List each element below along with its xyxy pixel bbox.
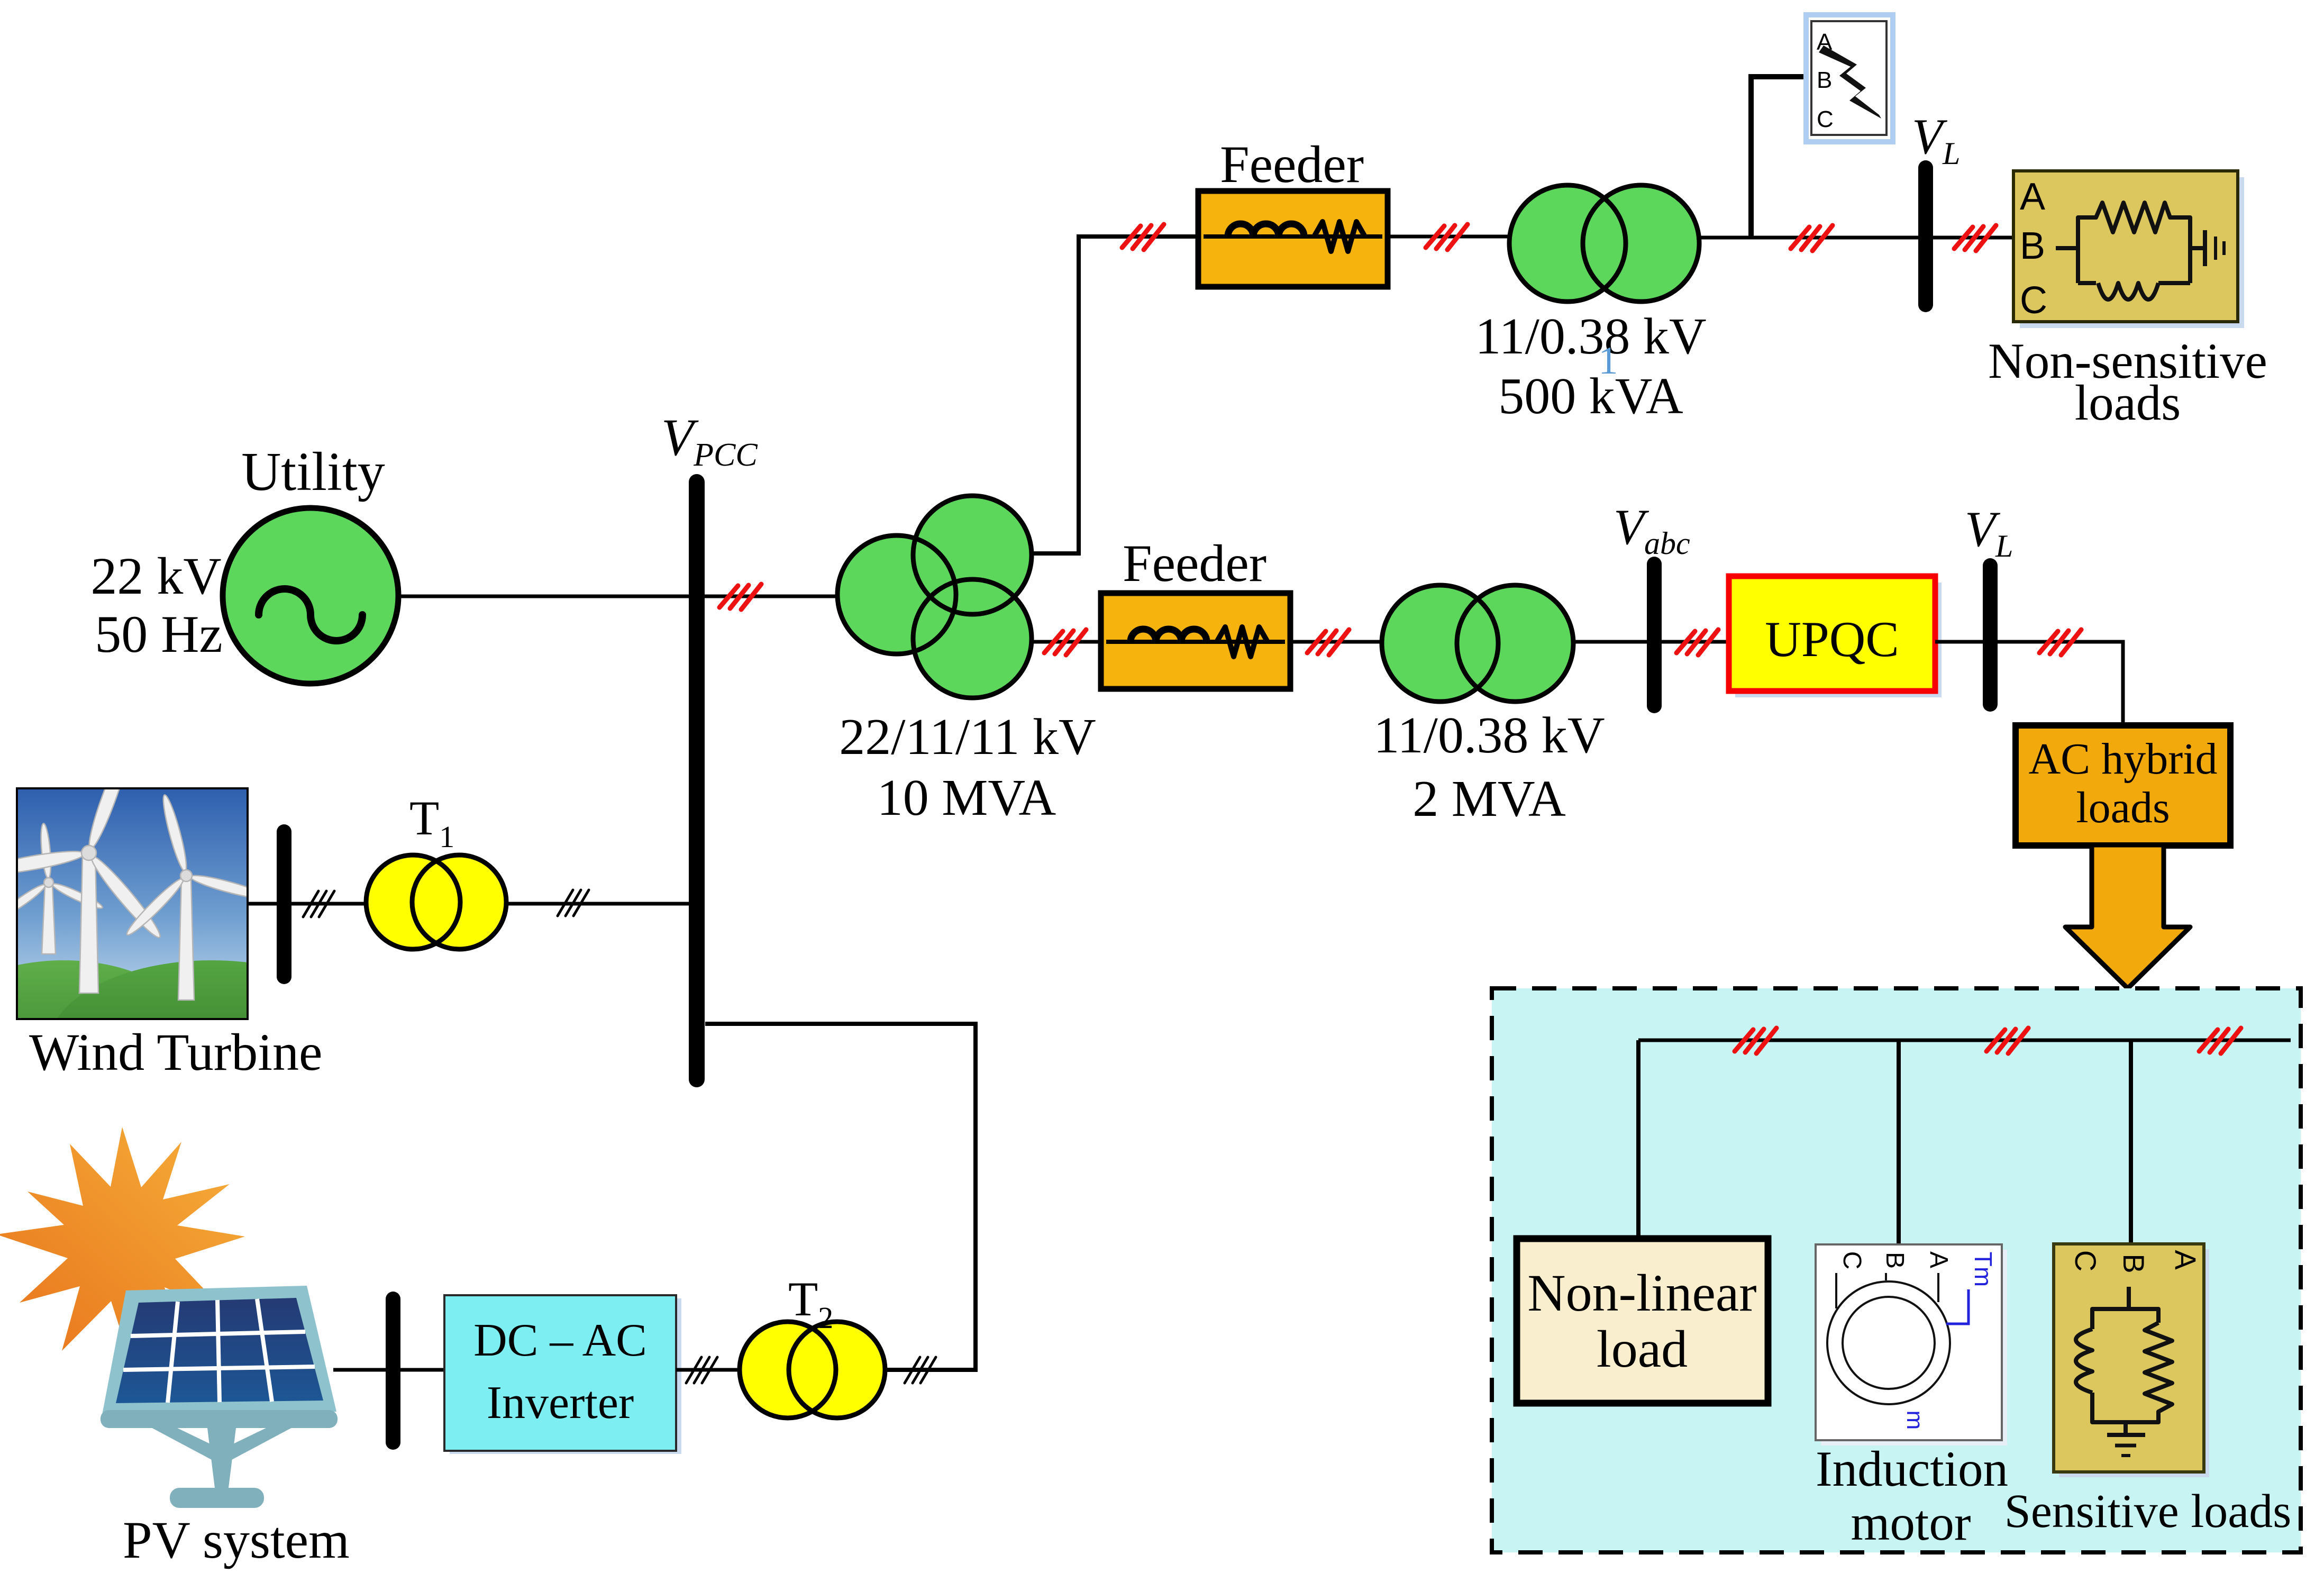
phase tick (red) load bus 3 (2199, 1028, 2241, 1053)
transformer T1 (366, 855, 506, 949)
wire: drop to induction motor (1897, 1040, 1901, 1247)
feeder block (lower) (1101, 593, 1290, 689)
svg-text:Induction: Induction (1816, 1441, 2008, 1497)
phase tick (red) right of upper V_L (1954, 225, 1996, 251)
phase tick (red) load bus 2 (1986, 1028, 2028, 1053)
svg-text:Utility: Utility (241, 441, 385, 502)
distribution area (dashed) (1492, 988, 2301, 1552)
svg-text:10 MVA: 10 MVA (877, 769, 1056, 826)
svg-text:B: B (2117, 1253, 2150, 1273)
svg-text:C: C (1817, 106, 1834, 132)
feeder block (upper) (1198, 191, 1388, 287)
phase tick (red) left of upper V_L (1791, 225, 1833, 251)
phase tick (red) right of V_abc (1676, 630, 1718, 655)
svg-text:11/0.38 kV: 11/0.38 kV (1475, 308, 1706, 365)
transformer 11/0.38 kV 500 kVA (1509, 185, 1699, 302)
phase tick (red) load bus 1 (1735, 1028, 1776, 1053)
wind turbine picture (0, 747, 376, 1135)
wire: utility to three-winding transformer via V_PCC bus (397, 595, 899, 598)
svg-text:C: C (2020, 279, 2047, 322)
svg-text:Non-linear: Non-linear (1527, 1263, 1756, 1322)
svg-text:Inverter: Inverter (487, 1377, 634, 1429)
phase tick (black) T1 right (558, 890, 589, 916)
arrow from AC hybrid loads into distribution area (2065, 845, 2190, 988)
svg-text:B: B (2020, 225, 2045, 267)
svg-text:loads: loads (2076, 783, 2170, 832)
phase tick (red) upper feeder left (1122, 224, 1164, 250)
svg-text:DC – AC: DC – AC (473, 1315, 647, 1366)
svg-text:50 Hz: 50 Hz (95, 605, 223, 663)
svg-text:11/0.38 kV: 11/0.38 kV (1373, 707, 1605, 764)
svg-text:Tm: Tm (1970, 1252, 1997, 1287)
svg-text:A: A (2169, 1250, 2202, 1270)
svg-text:Feeder: Feeder (1123, 534, 1266, 593)
UPQC block (1729, 576, 1942, 697)
phase tick (red) upper feeder right (1426, 224, 1468, 250)
phase tick (black) inverter right (686, 1357, 717, 1383)
wire: riser to fault block (1751, 77, 1809, 238)
svg-text:loads: loads (2075, 375, 2181, 431)
svg-text:A: A (1925, 1251, 1953, 1268)
wire: inverter to T2 (676, 1368, 751, 1372)
svg-text:A: A (2020, 176, 2045, 218)
svg-text:m: m (1902, 1411, 1928, 1430)
bus V_PCC (689, 482, 705, 1079)
svg-text:500 kVA: 500 kVA (1498, 368, 1683, 425)
phase tick (red) lower feeder right (1307, 630, 1349, 655)
sensitive loads block (2054, 1244, 2209, 1477)
bus V_L (upper) (1918, 168, 1933, 305)
bus at wind turbine (277, 832, 291, 977)
svg-text:B: B (1881, 1252, 1909, 1269)
AC hybrid loads block (2016, 725, 2230, 845)
wire: lower feeder to 2 MVA transformer (1290, 640, 1407, 644)
bus V_abc (1647, 564, 1662, 706)
utility source U1 (22 kV 50 Hz) (223, 508, 398, 684)
phase tick (red) right of lower V_L (2039, 630, 2081, 655)
wire: upper feeder to 500 kVA transformer (1388, 235, 1534, 239)
wire: 2 MVA transformer to UPQC via V_abc bus (1571, 640, 1729, 644)
wire: drop to sensitive loads (2129, 1040, 2133, 1246)
svg-text:22 kV: 22 kV (90, 547, 221, 605)
non-sensitive loads block (2013, 171, 2244, 328)
svg-text:motor: motor (1851, 1495, 1971, 1551)
bus at PV (386, 1299, 400, 1442)
DC-AC inverter block (444, 1295, 681, 1454)
phase tick (red) lower feeder left (1044, 630, 1086, 655)
wire: three-winding transformer bottom to lower feeder (984, 640, 1104, 644)
wire: V_PCC bus branch down to T2 (705, 1024, 976, 1370)
svg-text:Feeder: Feeder (1220, 135, 1364, 194)
wire: UPQC to AC hybrid loads via V_L bus (1935, 642, 2123, 729)
svg-text:PV system: PV system (123, 1511, 350, 1569)
svg-text:UPQC: UPQC (1765, 611, 1899, 667)
bus V_L (lower) (1983, 566, 1998, 704)
svg-text:load: load (1597, 1320, 1688, 1378)
non-linear load block (1517, 1239, 1768, 1403)
phase tick (black) T2 right (905, 1357, 936, 1383)
induction motor block (1816, 1244, 2007, 1445)
wire: three-winding transformer top to upper feeder (984, 237, 1201, 553)
svg-text:Wind Turbine: Wind Turbine (29, 1023, 322, 1081)
svg-text:22/11/11 kV: 22/11/11 kV (839, 708, 1096, 766)
svg-text:AC hybrid: AC hybrid (2029, 734, 2218, 784)
wire: 500 kVA transformer to non-sensitive loads via V_L bus (1697, 236, 2013, 240)
phase tick (black) wind side (303, 891, 334, 917)
svg-text:Sensitive loads: Sensitive loads (2004, 1485, 2291, 1538)
fault block (A B C lightning) (1806, 15, 1893, 142)
PV system picture (0, 1127, 338, 1508)
wire: PV to inverter (333, 1368, 447, 1372)
three-winding transformer 22/11/11 kV (837, 496, 1032, 698)
transformer 11/0.38 kV 2 MVA (1382, 585, 1573, 702)
svg-text:2 MVA: 2 MVA (1412, 770, 1566, 828)
svg-text:B: B (1817, 67, 1832, 93)
svg-text:C: C (1838, 1251, 1866, 1270)
load bus wire inside area (1638, 1039, 2291, 1042)
wire: wind turbine to T1 to V_PCC bus (248, 902, 689, 906)
phase tick (red) on PCC outgoing wire (719, 584, 761, 610)
wire: drop to non-linear load (1636, 1040, 1641, 1241)
svg-text:C: C (2069, 1250, 2102, 1271)
transformer T2 (740, 1322, 885, 1418)
